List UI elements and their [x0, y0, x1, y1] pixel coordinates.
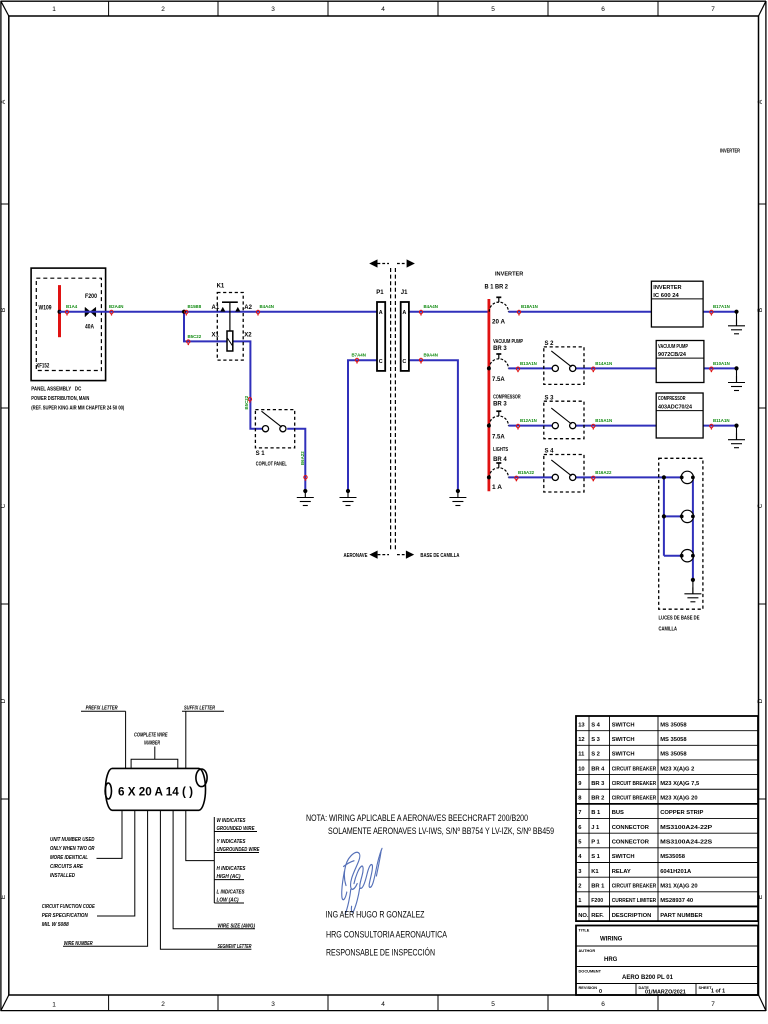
svg-text:E: E [0, 894, 7, 899]
complete wire number bracket [131, 759, 178, 768]
svg-text:SWITCH: SWITCH [612, 722, 635, 728]
svg-text:BR 3: BR 3 [591, 781, 605, 787]
svg-text:VACUUM PUMP: VACUUM PUMP [658, 344, 688, 350]
svg-text:B4A4N: B4A4N [424, 304, 438, 309]
svg-text:6041H201A: 6041H201A [660, 869, 692, 875]
svg-text:W INDICATES: W INDICATES [217, 818, 247, 824]
wire: K1 X2 to copilot panel [233, 341, 262, 428]
svg-text:WIRE NUMBER: WIRE NUMBER [64, 941, 93, 947]
ground: vacuum row [734, 366, 738, 370]
current limiter F200 (bowtie) [85, 307, 96, 317]
corner diagonals [1, 1, 9, 16]
svg-text:7.5A: 7.5A [492, 434, 505, 440]
svg-text:HRG: HRG [604, 957, 618, 963]
wire: row1 breaker to inverter box [508, 311, 651, 313]
svg-text:CIRCUIT BREAKER: CIRCUIT BREAKER [612, 766, 657, 772]
row3 tag B15A1N [592, 424, 595, 429]
lamp dashed box [659, 458, 703, 609]
wire: S4 to lamp box [576, 476, 682, 478]
bottom split arrow left + AERONAVE [344, 551, 390, 560]
svg-text:A1: A1 [212, 305, 220, 311]
svg-text:BR 4: BR 4 [591, 766, 605, 772]
TITLE BLOCK [576, 926, 758, 996]
ground: P1 pin C [346, 489, 350, 493]
svg-text:C: C [757, 503, 764, 508]
S1 dashed box [255, 410, 294, 448]
rotated wire tag B5C22 on X2 drop [248, 398, 251, 403]
svg-text:RESPONSABLE DE INSPECCIÓN: RESPONSABLE DE INSPECCIÓN [326, 948, 435, 959]
svg-text:AERONAVE: AERONAVE [344, 553, 368, 559]
K1 coil [227, 331, 233, 351]
svg-text:C: C [0, 503, 7, 508]
svg-text:TITLE: TITLE [579, 928, 590, 933]
switch box S3 [544, 395, 584, 438]
svg-text:BUS: BUS [612, 810, 624, 816]
breaker BR2 [489, 297, 508, 311]
row1 tag B18A1N [517, 310, 520, 315]
svg-text:XF152: XF152 [36, 364, 49, 370]
svg-text:B12A1N: B12A1N [520, 418, 537, 423]
svg-text:S 3: S 3 [591, 737, 600, 743]
svg-text:6: 6 [601, 6, 605, 13]
svg-text:AERO B200 PL 01: AERO B200 PL 01 [622, 975, 674, 981]
junction node lamp rail top [662, 475, 666, 479]
svg-text:B 1 BR 2: B 1 BR 2 [485, 285, 509, 291]
svg-text:S 2: S 2 [591, 752, 600, 758]
switch S1 [262, 411, 287, 432]
row3 tag B12A1N [516, 424, 519, 429]
svg-text:IC 600 24: IC 600 24 [653, 293, 679, 299]
svg-text:DOCUMENT: DOCUMENT [579, 969, 602, 974]
wire tag B4A4N after A2 [256, 310, 259, 315]
COPILOT PANEL S1 [255, 410, 294, 468]
row4 tag B15A22 [515, 476, 518, 481]
svg-text:7: 7 [711, 1001, 715, 1008]
svg-text:3: 3 [271, 1001, 275, 1008]
svg-text:S 2: S 2 [545, 341, 555, 347]
ground: inverter row [734, 310, 738, 314]
svg-text:UNIT NUMBER USED: UNIT NUMBER USED [50, 837, 95, 843]
svg-text:3: 3 [271, 6, 275, 13]
zone letters left [0, 99, 764, 899]
svg-text:VACUUM PUMP: VACUUM PUMP [493, 339, 523, 345]
svg-text:9072CB/24: 9072CB/24 [658, 352, 687, 358]
svg-text:B10A1N: B10A1N [713, 361, 730, 366]
svg-text:MS3100A24-22S: MS3100A24-22S [660, 840, 712, 846]
wire tag B1A4 [65, 310, 68, 315]
svg-text:CIRCUIT BREAKER: CIRCUIT BREAKER [612, 781, 657, 787]
wire: compressor box to ground [703, 425, 736, 427]
svg-text:MS 35058: MS 35058 [660, 737, 687, 743]
svg-text:COPILOT PANEL: COPILOT PANEL [256, 462, 287, 468]
svg-text:BR 4: BR 4 [493, 457, 507, 463]
svg-text:B9A4N: B9A4N [424, 353, 438, 358]
rotated wire tag B6A22 on S1 drop [304, 476, 307, 481]
K1 RELAY [212, 284, 253, 361]
wire: lamp right rail down [692, 477, 694, 580]
wire: inverter box to ground [703, 311, 736, 313]
svg-text:SWITCH: SWITCH [612, 854, 635, 860]
breaker BR3b [489, 411, 508, 425]
svg-text:PREFIX LETTER: PREFIX LETTER [86, 706, 118, 712]
svg-text:COPPER STRIP: COPPER STRIP [660, 810, 703, 816]
wire: K1 coil branch down [184, 312, 227, 342]
svg-text:PART NUMBER: PART NUMBER [660, 913, 703, 919]
wire: row3 breaker to S3 [508, 425, 552, 427]
svg-text:B15A22: B15A22 [518, 470, 535, 475]
svg-text:INVERTER: INVERTER [653, 285, 681, 291]
svg-text:B 1: B 1 [591, 810, 601, 816]
svg-text:B17A1N: B17A1N [713, 304, 730, 309]
breaker BR4 [489, 463, 508, 477]
svg-text:7: 7 [578, 810, 581, 816]
svg-text:REVISION: REVISION [579, 985, 598, 990]
lamp rail bottom dot [691, 578, 695, 582]
svg-text:K1: K1 [591, 869, 599, 875]
bus B1 (red vertical) [487, 299, 490, 491]
svg-text:B: B [757, 308, 764, 312]
right zone dividers [759, 203, 766, 205]
svg-text:MS28937 40: MS28937 40 [660, 898, 693, 904]
svg-text:POWER DISTRIBUTION, MAIN: POWER DISTRIBUTION, MAIN [31, 396, 89, 402]
svg-text:B7A4N: B7A4N [352, 353, 366, 358]
junction node lamp rail mid [662, 514, 666, 518]
svg-text:MS 35058: MS 35058 [660, 722, 687, 728]
panel outer box [31, 268, 106, 381]
svg-text:B5C22: B5C22 [188, 334, 202, 339]
bus bar W109 (red) [58, 285, 61, 337]
svg-text:REF.: REF. [591, 913, 604, 919]
svg-text:7: 7 [711, 6, 715, 13]
K1 contact stem [229, 302, 231, 331]
svg-text:K1: K1 [217, 284, 225, 290]
P1 body [377, 302, 385, 371]
K1 contact triangle A2 [235, 307, 240, 312]
svg-text:BR 3: BR 3 [493, 346, 507, 352]
svg-text:MIL W 5088: MIL W 5088 [42, 922, 69, 928]
svg-text:WIRE SIZE (AWG): WIRE SIZE (AWG) [218, 923, 256, 929]
svg-text:MORE IDENTICAL: MORE IDENTICAL [50, 855, 88, 861]
svg-text:WIRING: WIRING [600, 937, 623, 943]
svg-text:A: A [0, 99, 7, 104]
svg-text:A: A [379, 310, 383, 316]
svg-text:C: C [379, 359, 383, 365]
wire: J1 pin A to red bus [409, 311, 489, 313]
svg-text:B15A1N: B15A1N [595, 418, 612, 423]
svg-text:M31 X(A)G 20: M31 X(A)G 20 [660, 884, 697, 890]
svg-text:S 1: S 1 [591, 854, 600, 860]
svg-text:NO.: NO. [578, 913, 589, 919]
svg-text:INSTALLED: INSTALLED [50, 873, 75, 879]
svg-text:M23 X(A)G 20: M23 X(A)G 20 [660, 796, 697, 802]
svg-text:CIRCUIT FUNCTION CODE: CIRCUIT FUNCTION CODE [42, 904, 96, 910]
svg-text:S 4: S 4 [591, 722, 600, 728]
wire: row2 breaker to S2 [508, 367, 552, 369]
svg-text:B14A1N: B14A1N [595, 361, 612, 366]
K1 dashed box [217, 293, 243, 361]
lamp L3 [680, 550, 695, 562]
svg-text:D: D [0, 698, 7, 703]
svg-text:BASE DE CAMILLA: BASE DE CAMILLA [420, 553, 459, 559]
wire: panel bus to P1 pin A [60, 311, 378, 313]
wire: vacuum box to ground [704, 367, 737, 369]
svg-text:RELAY: RELAY [612, 869, 631, 875]
svg-text:11: 11 [578, 752, 585, 758]
svg-text:CAMILLA: CAMILLA [659, 627, 678, 633]
svg-text:SWITCH: SWITCH [612, 737, 635, 743]
inverter load box [651, 281, 703, 327]
ground: S1 circuit [303, 489, 307, 493]
svg-text:INVERTER: INVERTER [495, 272, 523, 278]
unit number label [42, 818, 260, 950]
svg-text:1 of 1: 1 of 1 [711, 989, 725, 995]
svg-text:M23 X(A)G 2: M23 X(A)G 2 [660, 766, 694, 772]
svg-text:S 3: S 3 [545, 395, 555, 401]
svg-text:2: 2 [578, 884, 581, 890]
wire tag B7A4N at P1 C [355, 358, 358, 363]
svg-text:NOTA: WIRING APLICABLE A AERON: NOTA: WIRING APLICABLE A AERONAVES BEECH… [306, 813, 528, 824]
svg-text:1: 1 [52, 1002, 56, 1009]
wire: row4 breaker to S4 [508, 476, 552, 478]
GREEN LABELS + RINGS [65, 304, 730, 481]
split dashed line left [390, 268, 392, 551]
breaker BR3 [489, 354, 508, 368]
split dashed line right [394, 268, 396, 551]
bus node row2 [487, 366, 491, 370]
svg-text:PANEL ASSEMBLY DC: PANEL ASSEMBLY DC [31, 387, 81, 393]
J1 body [401, 302, 409, 371]
left zone dividers [1, 203, 9, 205]
svg-text:1 A: 1 A [492, 485, 503, 491]
svg-text:F200: F200 [591, 898, 603, 904]
svg-text:10: 10 [578, 766, 584, 772]
svg-text:A: A [757, 99, 764, 104]
wire cylinder [105, 768, 207, 810]
svg-text:B4A4N: B4A4N [260, 304, 274, 309]
svg-text:CURRENT LIMITER: CURRENT LIMITER [612, 898, 657, 904]
row1 tag B17A1N [710, 310, 713, 315]
wire tag B5C22 [187, 340, 190, 345]
svg-text:P1: P1 [376, 290, 384, 296]
PANEL ASSEMBLY (left source box) [31, 268, 124, 411]
svg-text:MS3100A24-22P: MS3100A24-22P [660, 825, 712, 831]
wire: S2 to vacuum pump box [576, 367, 657, 369]
top split arrow left [369, 259, 389, 267]
svg-text:1: 1 [52, 6, 56, 13]
svg-text:AUTHOR: AUTHOR [579, 948, 596, 953]
svg-text:COMPLETE WIRE: COMPLETE WIRE [134, 733, 168, 739]
svg-text:BR 3: BR 3 [493, 401, 507, 407]
signature [342, 848, 382, 914]
svg-text:40A: 40A [85, 324, 95, 330]
LAMP BOX [659, 458, 703, 632]
svg-text:2: 2 [161, 1001, 165, 1008]
wire: P1 pin C to ground [348, 360, 377, 491]
lamp L1 [680, 471, 695, 483]
wire: J1 pin C to ground [409, 360, 458, 491]
svg-text:4: 4 [381, 6, 385, 13]
svg-text:F200: F200 [85, 294, 98, 300]
svg-text:DESCRIPTION: DESCRIPTION [612, 913, 652, 919]
row3 tag B11A1N [710, 424, 713, 429]
svg-text:B13A1N: B13A1N [520, 361, 537, 366]
svg-text:B: B [0, 308, 7, 312]
svg-text:A2: A2 [244, 305, 252, 311]
switch box S4 [544, 449, 584, 492]
wire: lamp left rail [663, 477, 665, 555]
row2 tag B10A1N [710, 367, 713, 372]
svg-text:CIRCUIT BREAKER: CIRCUIT BREAKER [612, 796, 657, 802]
svg-text:CIRCUIT BREAKER: CIRCUIT BREAKER [612, 884, 657, 890]
svg-text:0: 0 [599, 989, 602, 995]
svg-text:B6A22: B6A22 [300, 451, 305, 465]
svg-text:SUFFIX LETTER: SUFFIX LETTER [184, 706, 215, 712]
svg-text:5: 5 [491, 6, 495, 13]
svg-text:M23 X(A)G 7,5: M23 X(A)G 7,5 [660, 781, 700, 787]
svg-text:L INDICATES: L INDICATES [217, 890, 246, 896]
svg-text:S 4: S 4 [545, 449, 555, 455]
bus node row3 [487, 424, 491, 428]
svg-text:CONNECTOR: CONNECTOR [612, 840, 650, 846]
svg-text:SWITCH: SWITCH [612, 752, 635, 758]
NOTA + SIGNATURE [306, 813, 554, 959]
lamp L2 [680, 510, 695, 522]
lamp ground [692, 580, 694, 594]
PARTS TABLE [576, 716, 758, 921]
svg-text:5: 5 [491, 1001, 495, 1008]
svg-text:COMPRESSOR: COMPRESSOR [658, 396, 686, 402]
svg-text:SEGMENT LETTER: SEGMENT LETTER [218, 944, 252, 950]
svg-text:4: 4 [381, 1001, 385, 1008]
svg-text:01/MARZO/2021: 01/MARZO/2021 [645, 990, 686, 996]
svg-text:PER SPECIFICATION: PER SPECIFICATION [42, 913, 88, 919]
svg-text:CONNECTOR: CONNECTOR [612, 825, 650, 831]
P1 J1 CONNECTORS [344, 259, 460, 559]
wire tag B4A4N at J1 A [419, 310, 422, 315]
svg-text:S 1: S 1 [256, 451, 266, 457]
svg-text:HRG CONSULTORIA AERONAUTICA: HRG CONSULTORIA AERONAUTICA [326, 930, 447, 941]
wire tag B2A4N [110, 310, 113, 315]
svg-text:B15B8: B15B8 [188, 304, 202, 309]
K1 contact bar [222, 301, 238, 303]
svg-text:B1A4: B1A4 [66, 304, 78, 309]
svg-text:Y INDICATES: Y INDICATES [217, 839, 247, 845]
svg-text:6: 6 [601, 1001, 605, 1008]
svg-text:B18A1N: B18A1N [521, 304, 538, 309]
svg-text:UNGROUNDED WIRE: UNGROUNDED WIRE [217, 847, 261, 853]
wire tag B15B8 [185, 310, 188, 315]
svg-text:B11A1N: B11A1N [713, 418, 730, 423]
row2 tag B13A1N [516, 367, 519, 372]
svg-text:20 A: 20 A [492, 320, 506, 326]
svg-text:NUMBER: NUMBER [144, 741, 160, 747]
svg-text:MS35058: MS35058 [660, 854, 686, 860]
svg-text:SOLAMENTE AERONAVES LV-IWS, S/: SOLAMENTE AERONAVES LV-IWS, S/Nº BB754 Y… [328, 826, 554, 837]
K1 coil diagonal [227, 338, 232, 346]
svg-text:C: C [402, 359, 406, 365]
svg-text:INVERTER: INVERTER [720, 149, 740, 155]
svg-text:A: A [402, 310, 406, 316]
wire: lamp3 branch [664, 555, 681, 557]
svg-text:LUCES DE BASE DE: LUCES DE BASE DE [659, 616, 700, 622]
top split arrow right [397, 259, 415, 267]
svg-text:X2: X2 [244, 333, 252, 339]
svg-text:D: D [757, 698, 764, 703]
svg-text:P 1: P 1 [591, 840, 600, 846]
svg-text:ONLY WHEN TWO OR: ONLY WHEN TWO OR [50, 846, 95, 852]
svg-text:HIGH (AC): HIGH (AC) [217, 874, 241, 880]
svg-text:BR 1: BR 1 [591, 884, 605, 890]
svg-text:J1: J1 [401, 290, 408, 296]
MAIN WIRES [60, 312, 737, 580]
svg-text:LIGHTS: LIGHTS [493, 447, 508, 453]
svg-text:13: 13 [578, 722, 585, 728]
row2 tag B14A1N [592, 367, 595, 372]
leader lines below cylinder [63, 810, 259, 949]
vacuum pump load box [656, 341, 704, 383]
junction node at K1 branch [182, 310, 186, 314]
compressor load box [656, 393, 703, 438]
svg-text:CIRCUITS ARE: CIRCUITS ARE [50, 864, 84, 870]
svg-text:2: 2 [161, 6, 165, 13]
ground: compressor row [734, 424, 738, 428]
svg-text:BR 2: BR 2 [591, 796, 604, 802]
junction dot on bus [58, 310, 62, 314]
wire: S3 to compressor box [576, 425, 657, 427]
svg-text:6 X 20 A 14 ( ): 6 X 20 A 14 ( ) [118, 785, 193, 799]
row4 tag B16A22 [592, 476, 595, 481]
svg-text:MS 35058: MS 35058 [660, 752, 687, 758]
wire: S1 to ground [287, 429, 305, 491]
svg-text:7.5A: 7.5A [492, 377, 505, 383]
svg-text:GROUNDED WIRE: GROUNDED WIRE [217, 826, 256, 832]
svg-text:W109: W109 [39, 306, 53, 312]
svg-text:X1: X1 [212, 333, 220, 339]
svg-text:403ADC70/24: 403ADC70/24 [658, 405, 693, 411]
RIGHT BUS + ROWS [485, 272, 585, 493]
NOTA + SIGNATURE [0, 0, 1, 1]
svg-text:ING AER HUGO R GONZALEZ: ING AER HUGO R GONZALEZ [326, 910, 425, 921]
bottom zone dividers [108, 995, 110, 1011]
svg-text:LOW (AC): LOW (AC) [217, 898, 239, 904]
svg-text:B5C22: B5C22 [244, 395, 249, 409]
svg-text:B2A4N: B2A4N [109, 304, 123, 309]
svg-text:B16A22: B16A22 [595, 470, 612, 475]
switch box S2 [544, 341, 584, 384]
svg-text:J 1: J 1 [591, 825, 600, 831]
ground: J1 pin C [456, 489, 460, 493]
svg-text:H INDICATES: H INDICATES [217, 866, 247, 872]
wire tag B9A4N at J1 C [419, 358, 422, 363]
K1 contact triangle A1 [220, 307, 225, 312]
wire: lamp2 branch [664, 515, 681, 517]
svg-text:12: 12 [578, 737, 584, 743]
svg-text:(REF. SUPER KING AIR MM CHAPTE: (REF. SUPER KING AIR MM CHAPTER 24 50 00… [31, 405, 124, 411]
svg-text:COMPRESSOR: COMPRESSOR [493, 394, 520, 400]
bottom split arrow right + BASE DE CAMILLA [397, 551, 459, 560]
WIRE LEGEND [42, 706, 260, 950]
LOAD BOXES [651, 281, 704, 438]
bus node row4 [487, 475, 491, 479]
panel inner dashed box [36, 278, 101, 370]
outer page edge lines [1, 0, 767, 2]
